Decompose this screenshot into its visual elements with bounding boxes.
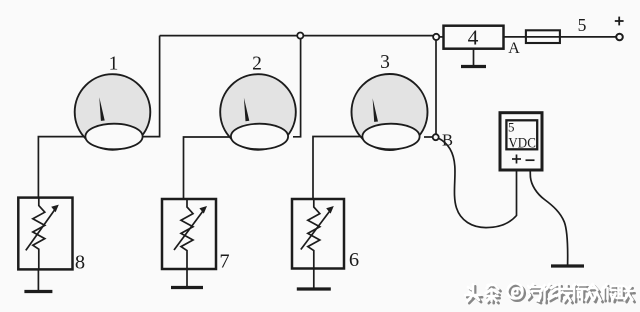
svg-text:5: 5 xyxy=(508,120,515,135)
watermark char shi xyxy=(573,284,588,302)
variable resistor R8 arrow xyxy=(26,210,55,251)
variable resistor R8 zigzag element xyxy=(33,197,45,270)
wire: top bus xyxy=(160,35,436,37)
meter M2 body xyxy=(220,74,296,150)
ground G6 bar xyxy=(297,287,331,290)
meter M3 needle xyxy=(373,98,378,122)
watermark char wei xyxy=(602,284,618,302)
voltmeter minus mark xyxy=(526,159,535,161)
watermark char xiu xyxy=(542,284,558,303)
watermark char zhong xyxy=(586,284,603,302)
wire: meter 3 input + drop to resistor 6 xyxy=(313,137,366,200)
meter M2 scale window xyxy=(231,124,288,150)
voltmeter plus mark xyxy=(512,155,521,164)
plus sign of battery terminal xyxy=(615,17,624,26)
node B xyxy=(433,134,439,140)
svg-text:7: 7 xyxy=(219,251,229,273)
wire: regulator 4 through fuse to battery terminal xyxy=(504,36,618,38)
wire: meter 3 stub to node B xyxy=(424,136,433,138)
variable resistor R6 zigzag element xyxy=(308,199,320,270)
svg-text:B: B xyxy=(442,131,453,150)
svg-text:4: 4 xyxy=(468,25,479,49)
svg-text:1: 1 xyxy=(109,54,119,75)
watermark char lian xyxy=(617,286,635,302)
svg-text:6: 6 xyxy=(349,249,359,271)
meter M1 scale window xyxy=(85,124,142,150)
ground G4 lead xyxy=(473,49,475,67)
svg-text:VDC: VDC xyxy=(508,136,536,152)
meter M1 body xyxy=(75,74,151,150)
voltmeter U5 outer case xyxy=(500,113,542,170)
meter M1 needle xyxy=(99,97,104,121)
wire: node B to voltmeter plus lead xyxy=(439,138,517,227)
regulator U4 box xyxy=(444,26,504,49)
svg-text:5: 5 xyxy=(578,15,587,35)
watermark char tiao xyxy=(486,284,501,303)
variable resistor R8 box xyxy=(18,198,72,270)
ground G4 bar xyxy=(461,65,486,68)
ground G7 lead xyxy=(186,269,188,288)
watermark char qi xyxy=(527,284,543,303)
node N2 xyxy=(433,34,439,40)
battery positive terminal xyxy=(616,34,623,41)
variable resistor R7 zigzag element xyxy=(181,199,193,270)
wire: meter 2 input + drop to resistor 7 xyxy=(184,137,235,200)
wire: vertical from node N2 down to node B xyxy=(435,36,437,137)
wire: meter 1 input + drop to resistor 8 xyxy=(38,137,90,199)
node N1 xyxy=(297,33,303,39)
ground bottom-right bar xyxy=(551,264,584,267)
variable resistor R7 arrow xyxy=(174,211,203,250)
ground G7 bar xyxy=(171,286,203,289)
voltmeter display bezel xyxy=(506,120,537,149)
watermark emblem @ xyxy=(507,283,524,300)
meter M2 needle xyxy=(244,98,249,122)
variable resistor R7 box xyxy=(162,199,216,269)
svg-text:2: 2 xyxy=(252,54,262,75)
watermark char ji xyxy=(557,284,574,303)
fuse F5 xyxy=(526,30,560,43)
svg-text:3: 3 xyxy=(380,52,390,73)
watermark char tou xyxy=(465,284,482,303)
variable resistor R6 box xyxy=(292,199,344,269)
ground G8 bar xyxy=(24,290,52,293)
ground G8 lead xyxy=(37,269,39,291)
wire: meter 1 output riser to top bus xyxy=(138,36,160,137)
ground G6 lead xyxy=(313,269,315,290)
meter M3 scale window xyxy=(362,124,419,150)
svg-text:A: A xyxy=(508,40,520,57)
wire: node N2 to regulator 4 xyxy=(436,36,444,38)
meter M3 body xyxy=(352,74,428,150)
wire: voltmeter minus lead to ground xyxy=(530,170,567,265)
wire: meter 2 riser from node N1 xyxy=(293,36,301,137)
svg-text:8: 8 xyxy=(75,252,85,274)
variable resistor R6 arrow xyxy=(301,211,330,250)
